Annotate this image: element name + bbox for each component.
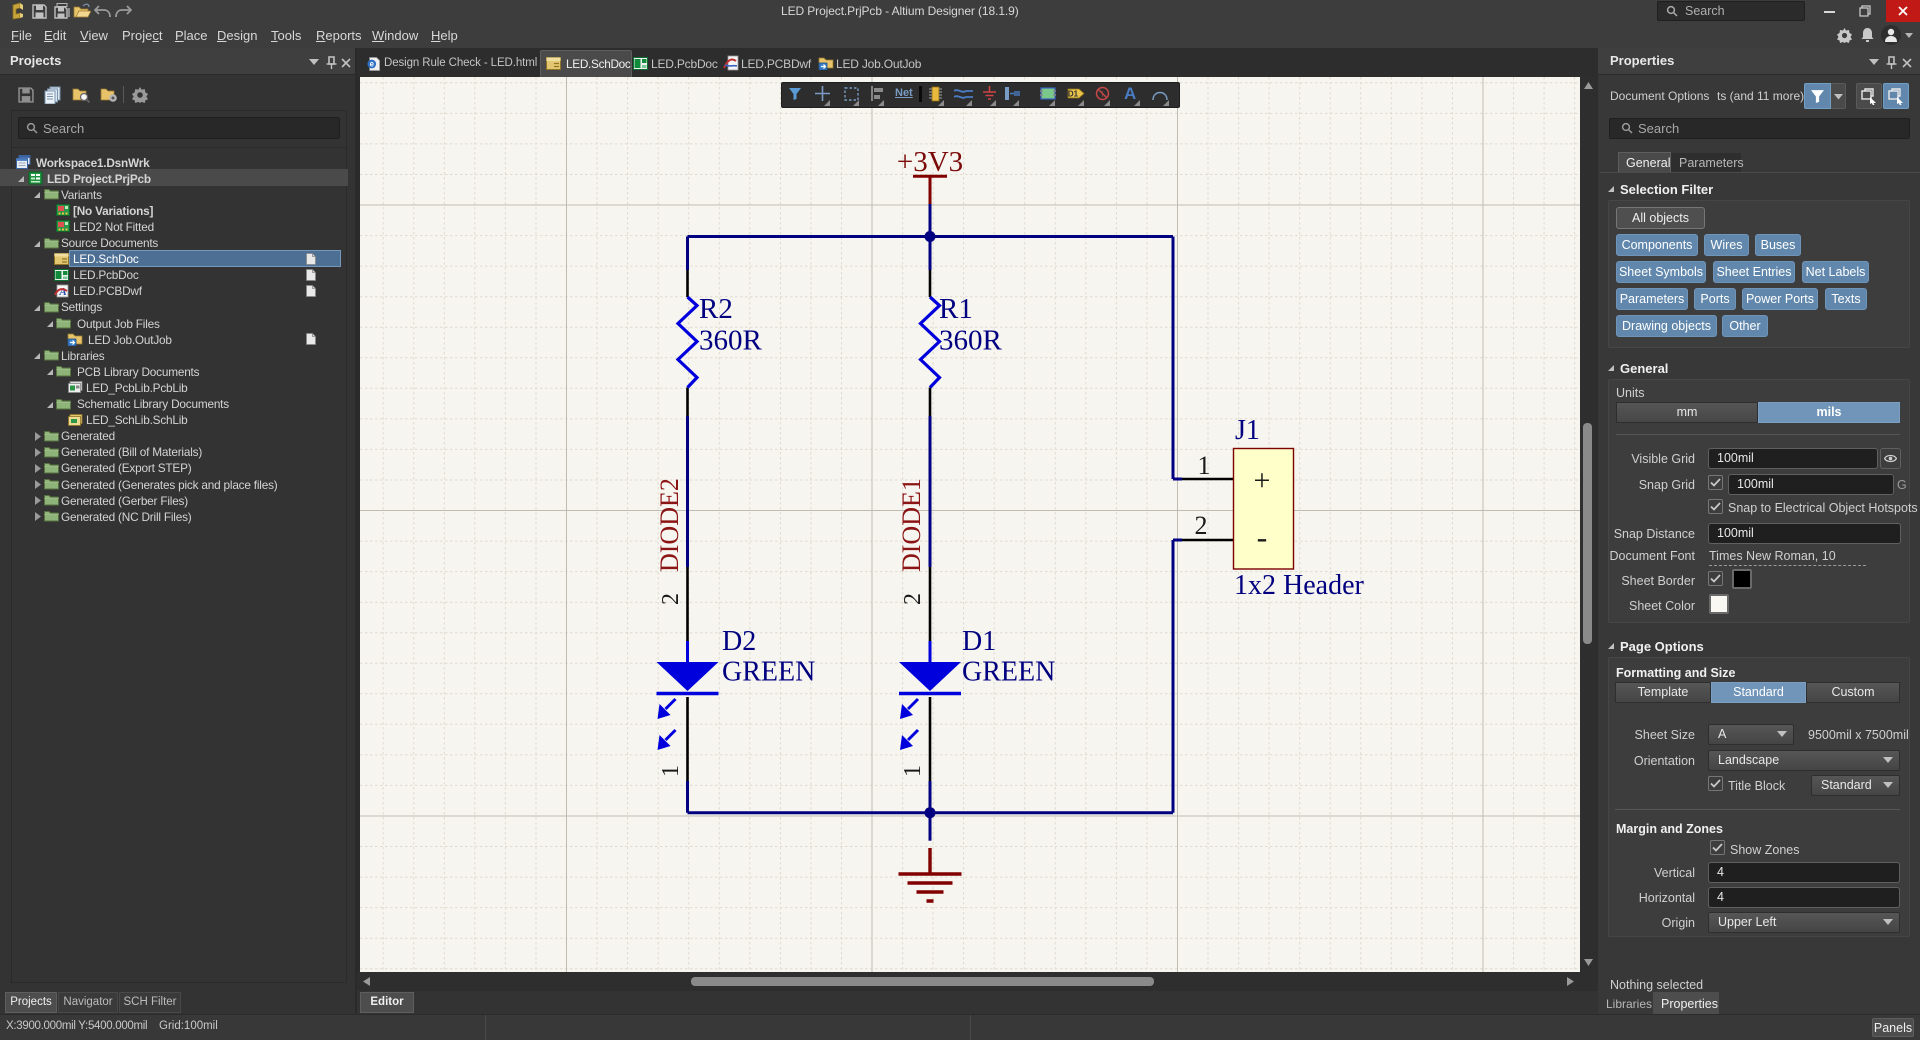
svg-text:GREEN: GREEN: [722, 657, 815, 688]
svg-text:D2: D2: [722, 626, 756, 657]
svg-text:360R: 360R: [939, 325, 1003, 357]
svg-text:1x2 Header: 1x2 Header: [1234, 570, 1365, 601]
svg-text:2: 2: [1195, 511, 1208, 540]
svg-text:R2: R2: [699, 293, 733, 325]
svg-text:D1: D1: [962, 626, 996, 657]
svg-text:-: -: [1257, 519, 1268, 555]
svg-text:+: +: [1254, 464, 1271, 497]
svg-text:J1: J1: [1235, 415, 1260, 446]
svg-text:A: A: [58, 286, 66, 298]
svg-text:DIODE2: DIODE2: [655, 478, 684, 572]
svg-text:1: 1: [1198, 451, 1211, 480]
svg-text:D1: D1: [1068, 90, 1079, 99]
svg-text:2: 2: [658, 593, 684, 605]
svg-text:DIODE1: DIODE1: [897, 478, 926, 572]
svg-text:+3V3: +3V3: [897, 146, 963, 178]
svg-text:R1: R1: [939, 293, 973, 325]
svg-text:1: 1: [900, 765, 926, 777]
svg-text:2: 2: [900, 593, 926, 605]
svg-text:360R: 360R: [699, 325, 763, 357]
svg-text:GREEN: GREEN: [962, 657, 1055, 688]
svg-text:1: 1: [658, 765, 684, 777]
svg-text:e: e: [370, 60, 375, 69]
